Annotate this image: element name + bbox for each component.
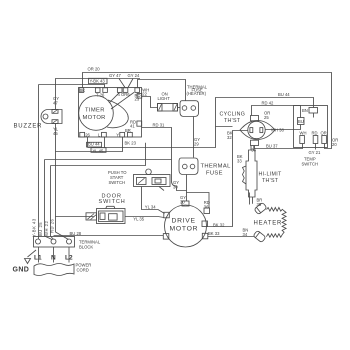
svg-text:L1: L1 — [34, 255, 42, 262]
svg-text:RD 26: RD 26 — [50, 218, 55, 233]
svg-text:RD 31: RD 31 — [153, 122, 166, 127]
svg-text:BUZZER: BUZZER — [14, 124, 43, 130]
svg-text:BK 33: BK 33 — [208, 231, 220, 236]
svg-text:CYCLING: CYCLING — [220, 112, 246, 118]
svg-text:MOTOR: MOTOR — [170, 226, 199, 233]
svg-text:T-26: T-26 — [96, 92, 105, 97]
svg-text:33: 33 — [237, 159, 242, 164]
svg-text:BU 44: BU 44 — [88, 142, 100, 147]
svg-text:RD 42: RD 42 — [262, 101, 275, 106]
svg-text:4 OR6: 4 OR6 — [118, 92, 131, 97]
svg-text:47: 47 — [53, 101, 58, 106]
svg-text:YL 35: YL 35 — [133, 216, 144, 221]
svg-text:41: 41 — [130, 124, 135, 129]
svg-text:30: 30 — [173, 185, 178, 190]
svg-text:TH'ST: TH'ST — [262, 178, 279, 184]
svg-text:35: 35 — [257, 202, 262, 207]
svg-text:GY 47: GY 47 — [109, 73, 121, 78]
svg-text:30: 30 — [180, 199, 185, 204]
svg-text:TH'ST: TH'ST — [224, 118, 241, 124]
svg-text:THERMAL: THERMAL — [201, 164, 232, 170]
svg-text:26: 26 — [85, 133, 90, 138]
svg-text:SWITCH: SWITCH — [99, 199, 126, 205]
svg-text:29: 29 — [194, 142, 199, 147]
svg-text:GY 24: GY 24 — [128, 73, 140, 78]
svg-text:25: 25 — [264, 115, 269, 120]
svg-text:BU 44: BU 44 — [278, 92, 290, 97]
svg-text:45: 45 — [53, 131, 58, 136]
svg-text:BK: BK — [80, 88, 86, 93]
svg-text:22: 22 — [142, 91, 147, 96]
svg-text:32: 32 — [227, 135, 232, 140]
svg-text:20: 20 — [332, 142, 337, 147]
svg-text:BU 37: BU 37 — [266, 143, 278, 148]
svg-text:N: N — [51, 255, 56, 262]
svg-text:LIGHT: LIGHT — [158, 96, 171, 101]
svg-text:BLOCK: BLOCK — [79, 245, 93, 250]
svg-text:BK 23: BK 23 — [125, 141, 137, 146]
svg-text:GND: GND — [13, 267, 30, 274]
svg-text:CORD: CORD — [77, 268, 89, 273]
svg-text:23: 23 — [135, 97, 140, 102]
svg-text:HI-LIMIT: HI-LIMIT — [259, 172, 282, 178]
svg-text:BU 28: BU 28 — [70, 231, 82, 236]
svg-text:YL 34: YL 34 — [145, 205, 156, 210]
svg-text:Y-BK 43: Y-BK 43 — [32, 218, 37, 237]
svg-text:DRIVE: DRIVE — [172, 218, 196, 225]
svg-text:WH: WH — [300, 131, 307, 136]
svg-text:YL 45: YL 45 — [93, 149, 104, 154]
svg-text:BU 25: BU 25 — [38, 222, 43, 236]
svg-text:34: 34 — [243, 232, 248, 237]
svg-text:BR: BR — [125, 128, 131, 133]
svg-text:36: 36 — [204, 204, 209, 209]
svg-text:FUSE: FUSE — [206, 171, 223, 177]
svg-text:(HEATER): (HEATER) — [187, 91, 207, 96]
svg-text:BN: BN — [302, 108, 308, 113]
svg-text:36: 36 — [251, 147, 256, 152]
svg-text:WH 22: WH 22 — [44, 221, 49, 236]
svg-text:WH 38: WH 38 — [271, 127, 284, 132]
svg-text:SWITCH: SWITCH — [109, 180, 126, 185]
svg-text:BU: BU — [298, 119, 304, 124]
svg-text:HEATER: HEATER — [254, 221, 283, 227]
svg-text:SWITCH: SWITCH — [302, 161, 319, 166]
svg-text:OR 20: OR 20 — [88, 67, 101, 72]
svg-text:Y: Y — [116, 133, 119, 138]
svg-text:TIMER: TIMER — [85, 108, 105, 114]
svg-text:L2: L2 — [65, 255, 73, 262]
svg-text:RD: RD — [312, 131, 318, 136]
svg-text:BK 32: BK 32 — [213, 223, 225, 228]
svg-text:MOTOR: MOTOR — [83, 115, 106, 121]
svg-text:Y-BK 43: Y-BK 43 — [90, 79, 106, 84]
svg-text:GY 21: GY 21 — [309, 150, 321, 155]
svg-text:OR: OR — [321, 131, 327, 136]
